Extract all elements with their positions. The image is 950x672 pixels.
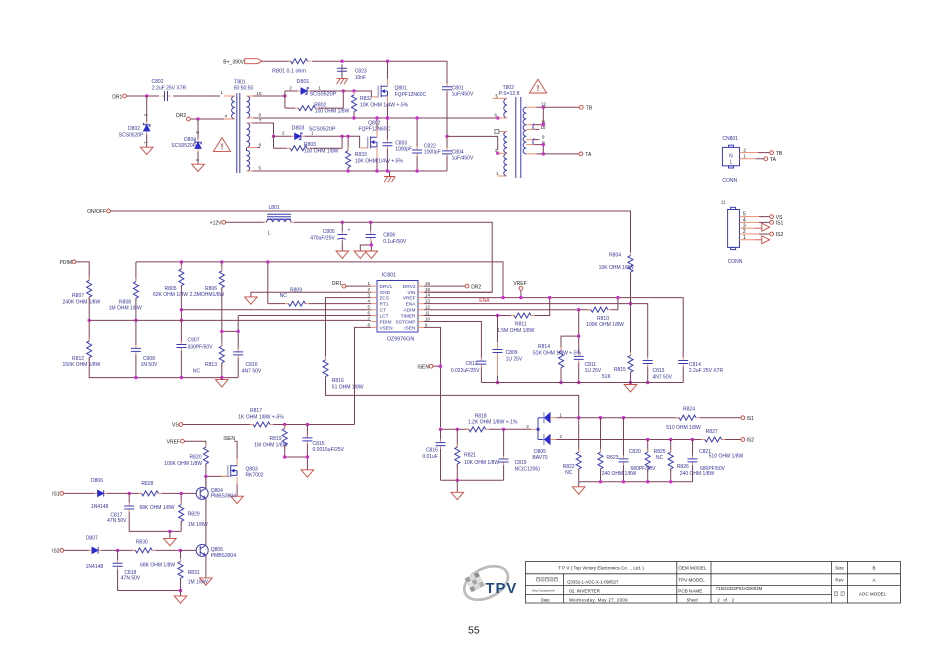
svg-text:680PF/50V: 680PF/50V xyxy=(700,466,726,472)
node junction IS1 R823 xyxy=(599,416,602,419)
svg-text:A: A xyxy=(872,577,876,582)
svg-text:BAV70: BAV70 xyxy=(532,455,547,461)
wire xyxy=(64,492,95,494)
wire xyxy=(107,492,141,494)
node junction R808 rail xyxy=(134,319,137,322)
wire T802 pin12 link xyxy=(536,107,543,124)
node junction C818 gnd xyxy=(179,589,182,592)
resistor R814 xyxy=(533,344,582,371)
svg-text:R815: R815 xyxy=(614,367,626,373)
wire xyxy=(341,222,343,251)
svg-text:240K OHM 1/8W: 240K OHM 1/8W xyxy=(63,299,101,305)
svg-text:2: 2 xyxy=(289,85,292,90)
svg-text:ENA: ENA xyxy=(406,302,417,308)
svg-text:DR1: DR1 xyxy=(332,281,342,287)
terminal TA2 xyxy=(764,157,777,163)
resistor R817 xyxy=(238,408,284,427)
node junction loop corner xyxy=(342,89,345,92)
capacitor C805 xyxy=(310,227,350,241)
svg-text:L: L xyxy=(268,231,271,237)
node junction C815 top xyxy=(306,423,309,426)
transistor Q804 xyxy=(196,487,236,499)
wire xyxy=(386,118,388,171)
wire pin6 row xyxy=(238,315,371,317)
wire pin9 ISEN xyxy=(424,327,441,427)
wire xyxy=(600,469,602,482)
svg-text:2: 2 xyxy=(744,147,747,152)
resistor R813 xyxy=(193,343,224,375)
svg-text:SCS0520P: SCS0520P xyxy=(119,132,144,138)
svg-text:1: 1 xyxy=(221,90,224,95)
resistor R822 xyxy=(563,418,581,476)
svg-text:R805: R805 xyxy=(165,286,177,292)
svg-text:8: 8 xyxy=(259,143,262,148)
node junction IS2 R826 xyxy=(669,438,672,441)
svg-text:1N 50V: 1N 50V xyxy=(141,362,158,368)
svg-text:DRV1: DRV1 xyxy=(380,284,393,290)
svg-text:9: 9 xyxy=(542,134,545,139)
wire xyxy=(237,358,239,378)
wire xyxy=(180,351,182,378)
svg-text:R816: R816 xyxy=(332,378,344,384)
terminal IS1c xyxy=(741,416,754,422)
wire pin8 stub short xyxy=(258,147,261,149)
node junction VREF stub xyxy=(519,296,522,299)
wire xyxy=(184,441,206,447)
svg-text:1K OHM 1/8W +-5%: 1K OHM 1/8W +-5% xyxy=(238,414,284,420)
svg-text:DRV2: DRV2 xyxy=(403,284,416,290)
svg-text:Rev: Rev xyxy=(835,577,844,582)
svg-text:R823: R823 xyxy=(606,455,618,461)
wire xyxy=(135,355,137,378)
node junction R810 VREF xyxy=(616,296,619,299)
wire xyxy=(670,469,672,482)
wire bottom rail IS xyxy=(579,465,693,482)
wire xyxy=(146,134,148,147)
capacitor C823 xyxy=(337,65,367,81)
node junction R831 top xyxy=(179,549,182,552)
svg-text:680PF/50V: 680PF/50V xyxy=(630,466,656,472)
wire R804 R815 link xyxy=(630,272,632,355)
node junction C811 rail xyxy=(577,381,580,384)
svg-text:R804: R804 xyxy=(609,252,621,258)
svg-text:PCB NAME: PCB NAME xyxy=(678,588,702,593)
wire xyxy=(647,367,649,383)
svg-text:D806: D806 xyxy=(91,478,103,484)
svg-text:9: 9 xyxy=(425,322,428,327)
svg-text:02. INVERTER: 02. INVERTER xyxy=(569,588,600,593)
svg-text:ISEN: ISEN xyxy=(223,436,235,442)
wire xyxy=(180,578,182,590)
wire xyxy=(446,92,448,149)
svg-text:47N 50V: 47N 50V xyxy=(121,576,141,582)
svg-text:0.022uF/25V: 0.022uF/25V xyxy=(451,368,480,374)
node junction R820 Q803 xyxy=(204,475,207,478)
terminal TB xyxy=(579,105,592,111)
svg-text:OEM MODEL: OEM MODEL xyxy=(678,566,707,571)
node junction T802 pin6 xyxy=(496,116,499,119)
svg-text:IS1: IS1 xyxy=(776,221,784,227)
node junction C822 xyxy=(415,116,418,119)
svg-text:C802: C802 xyxy=(152,79,164,85)
svg-text:10K OHM 1/4W +-5%: 10K OHM 1/4W +-5% xyxy=(355,159,404,165)
capacitor C821 xyxy=(688,440,726,473)
svg-text:R814: R814 xyxy=(538,344,550,350)
svg-text:10K OHM 1/8W: 10K OHM 1/8W xyxy=(464,460,499,466)
wire pin7 to D803 loop xyxy=(253,123,274,136)
svg-text:VREF: VREF xyxy=(403,296,416,302)
svg-text:ISEN: ISEN xyxy=(404,325,416,331)
svg-text:C819: C819 xyxy=(515,460,527,466)
svg-text:1.2K OHM 1/8W +-1%: 1.2K OHM 1/8W +-1% xyxy=(468,420,518,426)
node junction R815 rail xyxy=(629,381,632,384)
svg-text:FQPF12N60C: FQPF12N60C xyxy=(395,92,427,98)
svg-text:R824: R824 xyxy=(683,406,695,412)
node junction Q801 drain xyxy=(386,60,389,63)
svg-text:10K OHM 1/8W: 10K OHM 1/8W xyxy=(599,265,634,271)
wire xyxy=(221,363,223,378)
ground C817 xyxy=(164,531,177,545)
wire xyxy=(560,368,562,383)
wire pin13 ENA row xyxy=(424,304,648,358)
wire xyxy=(225,222,492,292)
terminal DR2 xyxy=(176,113,190,121)
node junction C803 xyxy=(386,116,389,119)
node junction C806 xyxy=(369,221,372,224)
svg-text:ISEN: ISEN xyxy=(417,364,429,370)
svg-text:1U 25V: 1U 25V xyxy=(585,368,602,374)
svg-text:C811: C811 xyxy=(585,362,597,368)
svg-text:C803: C803 xyxy=(395,140,407,146)
svg-text:C907: C907 xyxy=(188,338,200,344)
resistor R808 xyxy=(109,262,142,312)
svg-text:3: 3 xyxy=(368,293,371,298)
capacitor C813 xyxy=(643,357,673,380)
ground IS rail xyxy=(572,482,585,494)
svg-text:FQPF12N60C: FQPF12N60C xyxy=(358,126,390,132)
diode D803 xyxy=(282,126,336,140)
svg-text:TA: TA xyxy=(770,157,777,163)
node junction rail R825 xyxy=(646,480,649,483)
wire xyxy=(88,297,90,341)
wire PDIM to R807 xyxy=(76,262,90,280)
svg-text:R809: R809 xyxy=(290,288,302,294)
svg-text:Size: Size xyxy=(835,566,844,571)
resistor R811 xyxy=(497,313,535,334)
wire gate Q802 xyxy=(342,136,360,148)
wire pin16 DR2 xyxy=(424,285,465,287)
capacitor C803 xyxy=(382,140,412,153)
node junction R813 rail xyxy=(220,376,223,379)
svg-text:C816: C816 xyxy=(426,448,438,454)
svg-text:2: 2 xyxy=(560,434,563,439)
svg-text:+: + xyxy=(348,227,351,233)
svg-text:15: 15 xyxy=(425,287,430,292)
svg-text:GND: GND xyxy=(380,290,391,296)
resistor R832 xyxy=(352,91,409,115)
capacitor C907 xyxy=(176,338,213,351)
svg-text:1: 1 xyxy=(744,154,747,159)
svg-text:0.1uF/50V: 0.1uF/50V xyxy=(383,239,407,245)
node junction loop corner xyxy=(340,135,343,138)
node junction R806 jog xyxy=(220,330,223,333)
wire xyxy=(746,153,759,159)
svg-text:PMBS3904: PMBS3904 xyxy=(211,553,237,559)
wire xyxy=(135,298,137,345)
svg-text:1uF/450V: 1uF/450V xyxy=(452,156,474,162)
svg-text:CT: CT xyxy=(380,308,386,314)
svg-text:4N7 50V: 4N7 50V xyxy=(653,374,673,380)
svg-text:1: 1 xyxy=(319,85,322,90)
terminal IS1b xyxy=(52,492,64,498)
logo TPV xyxy=(459,559,518,606)
svg-text:R831: R831 xyxy=(188,570,200,576)
node junction C816 xyxy=(439,428,442,431)
node junction IS1 C820 xyxy=(622,416,625,419)
terminal IS2 xyxy=(770,232,784,238)
wire xyxy=(623,465,625,482)
svg-text:IS1: IS1 xyxy=(747,416,755,422)
svg-text:R811: R811 xyxy=(515,321,527,327)
wire xyxy=(64,549,90,551)
node junction R811 VREF xyxy=(548,296,551,299)
svg-text:10: 10 xyxy=(257,91,262,96)
capacitor C820 xyxy=(619,418,657,472)
node junction Q801 source xyxy=(386,116,389,119)
svg-text:Wednesday, May 27, 2009: Wednesday, May 27, 2009 xyxy=(569,598,628,603)
node junction C817 top xyxy=(128,492,131,495)
wire xyxy=(146,96,148,122)
wire xyxy=(285,445,308,457)
node junction C813 rail xyxy=(646,381,649,384)
svg-text:6: 6 xyxy=(368,310,371,315)
capacitor C806 xyxy=(366,231,407,245)
wire R810 up xyxy=(611,298,618,310)
svg-text:ADIM: ADIM xyxy=(404,308,416,314)
wire pin10 xyxy=(254,95,285,97)
terminal VS xyxy=(172,423,183,429)
wire xyxy=(156,549,197,551)
svg-text:C822: C822 xyxy=(424,143,436,149)
wire pin11 TIMER row xyxy=(424,315,514,317)
resistor R833 xyxy=(346,136,404,171)
node junction C818 top xyxy=(116,549,119,552)
svg-text:R802: R802 xyxy=(314,102,326,108)
svg-text:1N4148: 1N4148 xyxy=(91,504,109,510)
svg-text:50:50:50: 50:50:50 xyxy=(234,86,254,92)
svg-text:OZ9976GN: OZ9976GN xyxy=(387,337,415,343)
node junction R814 jog xyxy=(577,334,580,337)
node junction C805 xyxy=(341,221,344,224)
title block text xyxy=(532,566,887,603)
terminal IS1 xyxy=(770,221,784,227)
svg-text:CONN: CONN xyxy=(728,259,743,265)
svg-text:NC: NC xyxy=(193,368,201,374)
diode D802 xyxy=(119,114,150,145)
svg-text:TA: TA xyxy=(585,152,592,158)
svg-text:NC: NC xyxy=(565,470,573,476)
node junction R821 xyxy=(456,428,459,431)
svg-text:NC: NC xyxy=(656,455,664,461)
transistor Q801 xyxy=(371,85,426,98)
svg-text:62K OHM 1/8W: 62K OHM 1/8W xyxy=(153,292,188,298)
transistor Q803 xyxy=(221,465,264,479)
diode D805 BAV70 xyxy=(526,412,562,461)
svg-text:1uF/450V: 1uF/450V xyxy=(452,92,474,98)
wire pin8 VSEN drop xyxy=(355,327,372,424)
chassis ground xyxy=(337,79,348,85)
node junction R805 pin5 row xyxy=(180,308,183,311)
wire Q803 source xyxy=(236,477,238,485)
ground IC pin2 xyxy=(245,297,258,304)
svg-text:N: N xyxy=(729,154,733,160)
svg-text:SSTCMP: SSTCMP xyxy=(396,319,416,325)
svg-text:R820: R820 xyxy=(190,454,202,460)
svg-text:C806: C806 xyxy=(383,233,395,239)
node junction DR2 D804 xyxy=(196,117,199,120)
svg-text:DR2: DR2 xyxy=(176,113,186,119)
svg-text:2.2uF 25V X7R: 2.2uF 25V X7R xyxy=(152,85,187,91)
diode D807 xyxy=(86,535,104,570)
svg-text:TPV: TPV xyxy=(486,581,518,597)
wire xyxy=(180,521,182,531)
svg-text:PMBS3904: PMBS3904 xyxy=(211,494,237,500)
node junction IS2 C821 xyxy=(691,438,694,441)
title block frame xyxy=(525,562,900,604)
svg-text:PDIM: PDIM xyxy=(60,260,73,266)
label ISEN2 xyxy=(223,436,237,442)
ground C816 rail xyxy=(451,480,464,499)
svg-text:51K: 51K xyxy=(602,374,612,380)
node junction C815 bottom xyxy=(306,455,309,458)
terminal VREF xyxy=(513,281,526,297)
svg-text:TIMER: TIMER xyxy=(401,313,416,319)
resistor R806 xyxy=(190,262,225,298)
wire D801 R802 loop xyxy=(285,91,343,108)
svg-text:ZCS: ZCS xyxy=(380,296,390,302)
terminal ISEN xyxy=(417,364,440,370)
terminal DR1 xyxy=(112,94,126,100)
node junction pin10 loop xyxy=(283,94,286,97)
svg-text:IC801: IC801 xyxy=(382,273,396,279)
svg-text:1: 1 xyxy=(560,412,563,417)
svg-text:R832: R832 xyxy=(360,96,372,102)
svg-text:68K OHM 1/8W: 68K OHM 1/8W xyxy=(140,562,175,568)
svg-text:R818: R818 xyxy=(475,413,487,419)
wire xyxy=(197,119,199,139)
node junction ADIM C811 xyxy=(577,308,580,311)
wire pin5 row xyxy=(181,309,371,311)
node junction Q802 drain xyxy=(375,116,378,119)
wire pin4 xyxy=(309,303,371,305)
node junction IS2 R825 xyxy=(646,438,649,441)
wire xyxy=(262,61,447,86)
wire xyxy=(347,168,349,172)
terminal TA xyxy=(579,152,592,158)
svg-text:C804: C804 xyxy=(452,149,464,155)
resistor R820 xyxy=(164,444,208,468)
svg-text:G3332-1-AOC-X-1-090527: G3332-1-AOC-X-1-090527 xyxy=(567,579,619,584)
svg-text:12: 12 xyxy=(425,305,430,310)
svg-text:Q801: Q801 xyxy=(395,86,407,92)
capacitor C908 xyxy=(131,345,158,368)
wire Q804 collector emitter xyxy=(205,476,207,545)
wire xyxy=(129,512,181,531)
svg-text:2: 2 xyxy=(368,287,371,292)
node junction rail R823 xyxy=(599,480,602,483)
resistor R824 xyxy=(666,406,701,431)
svg-text:D802: D802 xyxy=(128,126,140,132)
wire xyxy=(441,465,504,480)
terminal DR1 mid xyxy=(332,281,346,288)
svg-text:VIN: VIN xyxy=(408,290,417,296)
arrow marker pin1 xyxy=(762,236,770,244)
svg-text:9: 9 xyxy=(259,113,262,118)
svg-text:1: 1 xyxy=(496,171,499,176)
node junction R807 rail xyxy=(88,319,91,322)
svg-text:1000pF: 1000pF xyxy=(395,147,412,153)
svg-text:C823: C823 xyxy=(355,69,367,75)
ground xyxy=(365,251,378,258)
svg-text:R826: R826 xyxy=(677,464,689,470)
svg-text:47N 50V: 47N 50V xyxy=(107,518,127,524)
svg-text:C821: C821 xyxy=(699,449,711,455)
svg-text:TB: TB xyxy=(586,106,593,112)
wire R811 up xyxy=(534,298,549,316)
warning triangle xyxy=(213,138,230,152)
node junction R832 gate xyxy=(352,89,355,92)
ground xyxy=(370,243,373,246)
svg-text:L801: L801 xyxy=(268,205,279,211)
svg-text:2 of 2: 2 of 2 xyxy=(717,597,734,602)
svg-text:RK7002: RK7002 xyxy=(246,473,264,479)
node junction C817 gnd xyxy=(168,530,171,533)
wire xyxy=(102,549,136,551)
node junction R805 rail xyxy=(180,319,183,322)
wire xyxy=(456,464,458,480)
svg-text:D805: D805 xyxy=(534,449,546,455)
wire ON/OFF to R804 xyxy=(110,211,630,255)
svg-text:Key Component: Key Component xyxy=(532,589,554,593)
svg-text:510 OHM 1/8W: 510 OHM 1/8W xyxy=(666,425,701,431)
svg-text:7: 7 xyxy=(259,118,262,123)
resistor R809 xyxy=(268,288,309,306)
wire pin2 GND xyxy=(251,292,371,297)
wire mid bottom rail xyxy=(481,367,683,383)
resistor R829 xyxy=(179,493,208,528)
svg-text:AOC MODEL: AOC MODEL xyxy=(859,591,887,596)
terminal +12V xyxy=(210,220,226,226)
svg-text:Q803: Q803 xyxy=(246,466,258,472)
capacitor C811 xyxy=(574,353,602,374)
resistor R807 xyxy=(63,277,101,305)
capacitor C802 xyxy=(152,79,187,101)
wire Q802 drain source xyxy=(376,129,378,159)
ground C815 xyxy=(301,470,314,477)
node junction C809 rail xyxy=(496,381,499,384)
wire R818 row xyxy=(441,428,532,430)
node junction rail C820 xyxy=(622,480,625,483)
node junction DR1 D802 xyxy=(145,94,148,97)
warning triangle xyxy=(529,79,546,93)
resistor R819 xyxy=(254,425,287,449)
svg-text:0.0015uF/25V: 0.0015uF/25V xyxy=(313,447,345,453)
node junction ENA R804 xyxy=(629,302,632,305)
svg-text:IS1: IS1 xyxy=(52,492,60,498)
ground xyxy=(140,147,153,154)
svg-text:R821: R821 xyxy=(464,453,476,459)
svg-text:DR2: DR2 xyxy=(471,284,481,290)
